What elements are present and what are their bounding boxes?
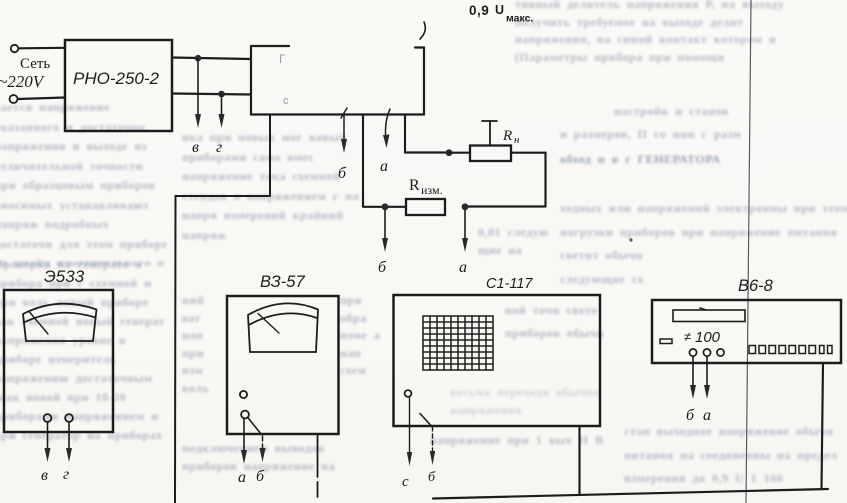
faint bottom right bbox=[624, 420, 846, 492]
svg-text:Сеть: Сеть bbox=[20, 56, 50, 72]
svg-text:с: с bbox=[283, 95, 289, 107]
V3-57 meter face bbox=[248, 303, 318, 352]
svg-text:а: а bbox=[380, 158, 388, 175]
stray mark bbox=[629, 238, 632, 241]
svg-text:а: а bbox=[703, 407, 711, 424]
faint bottom middle bbox=[505, 299, 617, 375]
E533 terminal g bbox=[65, 414, 73, 422]
wire below V3-57 right bbox=[317, 434, 319, 497]
resistor Rn bbox=[470, 146, 511, 162]
svg-text:макс.: макс. bbox=[506, 13, 533, 25]
svg-text:в: в bbox=[192, 139, 199, 156]
wire V6-8 right down bbox=[822, 363, 824, 489]
svg-text:б: б bbox=[338, 165, 347, 182]
node junction at Rn left bbox=[446, 149, 453, 156]
wire PHO lower output bbox=[172, 94, 251, 95]
svg-text:~220V: ~220V bbox=[0, 72, 46, 91]
arrow from node b down bbox=[382, 210, 388, 252]
mains terminal upper bbox=[11, 45, 18, 52]
node junction on lower wire bbox=[218, 91, 225, 98]
svg-text:г: г bbox=[63, 466, 69, 483]
svg-text:н: н bbox=[514, 134, 520, 146]
svg-text:а: а bbox=[238, 469, 246, 486]
V6-8 terminal a bbox=[703, 349, 710, 356]
E533 terminal v bbox=[44, 414, 52, 422]
svg-text:Г: Г bbox=[279, 52, 286, 66]
C1-117 CRT grid bbox=[423, 316, 493, 370]
V6-8 terminal b bbox=[689, 349, 696, 356]
arrow V6-8 a bbox=[704, 357, 710, 400]
svg-text:0,9: 0,9 bbox=[469, 3, 489, 18]
autotransformer PHO-250-2 box bbox=[65, 40, 172, 131]
voltmeter E533 box bbox=[4, 290, 113, 432]
arrow tap a under generator bbox=[383, 109, 390, 148]
svg-text:б: б bbox=[378, 259, 387, 276]
svg-text:В6-8: В6-8 bbox=[738, 277, 774, 295]
arrow V3-57 a bbox=[241, 419, 247, 464]
wire generator to Rizm node bbox=[362, 115, 364, 207]
parenthesis mark above generator bbox=[420, 22, 425, 39]
V3-57 diagonal lead bbox=[248, 418, 261, 435]
V3-57 terminal lower bbox=[241, 411, 249, 419]
E533 needle bbox=[30, 312, 49, 334]
svg-text:б: б bbox=[256, 468, 265, 485]
millivoltmeter V3-57 box bbox=[227, 296, 339, 434]
V6-8 small switch bbox=[660, 339, 672, 344]
arrow V3-57 b bbox=[262, 436, 264, 453]
Rn wiper terminal bbox=[482, 121, 497, 146]
V3-57 terminal upper bbox=[240, 391, 247, 398]
arrow tap v bbox=[195, 58, 201, 128]
E533 meter face bbox=[23, 304, 97, 341]
svg-text:ВЗ-57: ВЗ-57 bbox=[260, 273, 305, 291]
faint bleed-through text: top right block bbox=[515, 0, 815, 74]
mains terminal lower bbox=[10, 95, 18, 103]
svg-text:изм.: изм. bbox=[421, 183, 443, 197]
arrow tap b under generator bbox=[341, 108, 347, 153]
wire C1-117 bottom right down bbox=[578, 426, 580, 495]
svg-text:б: б bbox=[428, 470, 436, 485]
svg-text:г: г bbox=[216, 139, 222, 156]
faint mid-right fragments bbox=[478, 224, 564, 268]
wire bottom bus bbox=[433, 489, 828, 499]
svg-text:≠: ≠ bbox=[684, 329, 691, 344]
faint right column lower bbox=[560, 197, 847, 267]
svg-text:100: 100 bbox=[695, 329, 721, 346]
wire mains lower to PHO bbox=[18, 98, 65, 100]
generator box (partial) bbox=[251, 46, 424, 115]
node junction on upper wire bbox=[195, 55, 202, 62]
wire Rn right side down to Rizm row bbox=[465, 153, 546, 207]
wire Rizm row left bbox=[363, 206, 406, 208]
voltmeter V6-8 box bbox=[652, 300, 841, 363]
arrow C1-117 b bbox=[432, 427, 434, 456]
faint bottom left behind E533 bbox=[0, 255, 174, 500]
svg-text:с: с bbox=[402, 474, 409, 490]
svg-text:Э533: Э533 bbox=[44, 267, 85, 286]
wire node to Rn bbox=[449, 152, 470, 154]
oscilloscope C1-117 box bbox=[394, 295, 601, 426]
arrow V6-8 b bbox=[690, 357, 696, 400]
svg-text:а: а bbox=[459, 259, 467, 276]
arrow from E533 terminal v bbox=[45, 422, 51, 462]
node junction a (Rizm right) bbox=[462, 203, 469, 210]
faint middle column behind V3-57 bbox=[182, 128, 384, 290]
resistor Rizm bbox=[406, 199, 445, 215]
C1-117 terminal bbox=[405, 390, 412, 397]
V6-8 terminal third bbox=[717, 349, 724, 356]
wire mains upper to PHO bbox=[19, 47, 66, 50]
wire generator to Rn bbox=[405, 115, 449, 153]
wire PHO upper output bbox=[172, 58, 251, 60]
C1-117 diagonal lead bbox=[420, 414, 431, 426]
wire generator bottom-left down-left-down bbox=[175, 115, 270, 503]
svg-text:РНО-250-2: РНО-250-2 bbox=[73, 69, 160, 88]
svg-text:б: б bbox=[686, 407, 695, 424]
V6-8 button row bbox=[749, 346, 832, 354]
svg-text:С1-117: С1-117 bbox=[486, 276, 533, 292]
faint bleed-through text: right column mid bbox=[614, 103, 814, 121]
page crease line bbox=[746, 0, 751, 503]
V6-8 display window bbox=[673, 308, 745, 322]
arrow from E533 terminal g bbox=[66, 422, 72, 462]
arrow from node a down bbox=[462, 210, 468, 252]
node junction b (Rizm left) bbox=[382, 203, 389, 210]
V3-57 needle bbox=[258, 314, 279, 334]
svg-text:R: R bbox=[409, 177, 420, 194]
svg-text:в: в bbox=[41, 467, 48, 484]
arrow tap g bbox=[219, 94, 225, 128]
svg-text:R: R bbox=[502, 128, 512, 144]
faint left column bbox=[0, 98, 170, 266]
arrow C1-117 s bbox=[407, 398, 412, 467]
svg-text:U: U bbox=[495, 3, 504, 17]
